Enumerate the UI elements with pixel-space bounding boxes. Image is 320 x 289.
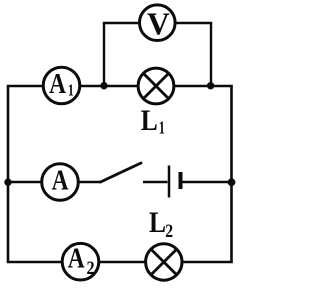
switch S (open blade) xyxy=(101,163,142,182)
wire right border xyxy=(230,86,233,262)
node junction dot left xyxy=(100,82,107,89)
wire left border xyxy=(7,86,10,262)
wire top row middle segment xyxy=(81,85,140,87)
lamp L2 xyxy=(146,244,182,280)
wire voltmeter branch top left xyxy=(103,22,140,24)
wire bottom row right segment xyxy=(183,261,233,263)
wire battery to right border xyxy=(181,181,233,183)
svg-text:A: A xyxy=(52,164,69,196)
svg-text:2: 2 xyxy=(165,221,173,241)
svg-text:2: 2 xyxy=(86,257,94,279)
wire bottom row left segment xyxy=(7,261,62,263)
wire voltmeter branch top right xyxy=(175,22,212,24)
svg-text:A: A xyxy=(68,243,85,275)
node junction dot left border middle xyxy=(4,179,11,186)
svg-text:1: 1 xyxy=(159,120,165,139)
wire bottom row middle segment xyxy=(100,261,146,263)
wire voltmeter branch right vertical xyxy=(210,23,212,86)
ammeter A1 xyxy=(43,67,80,104)
svg-text:L: L xyxy=(141,104,158,137)
label L2 xyxy=(149,206,173,241)
ammeter A xyxy=(42,164,79,201)
node junction dot right of L1 xyxy=(207,82,214,89)
wire top row left segment xyxy=(7,85,43,87)
svg-text:V: V xyxy=(147,7,170,42)
battery cell xyxy=(169,166,181,198)
svg-text:L: L xyxy=(149,206,166,239)
wire switch right contact to battery xyxy=(143,181,168,183)
voltmeter V xyxy=(140,5,176,42)
svg-text:A: A xyxy=(49,68,66,100)
ammeter A2 xyxy=(62,243,99,280)
svg-text:1: 1 xyxy=(68,81,74,100)
label L1 xyxy=(141,104,165,138)
wire voltmeter branch left vertical xyxy=(103,23,105,86)
node junction dot right border middle xyxy=(228,178,236,186)
lamp L1 xyxy=(138,68,174,104)
wire ammeter A to switch pivot xyxy=(79,181,101,183)
wire top row right segment xyxy=(175,85,233,87)
wire middle row left segment xyxy=(7,181,42,183)
